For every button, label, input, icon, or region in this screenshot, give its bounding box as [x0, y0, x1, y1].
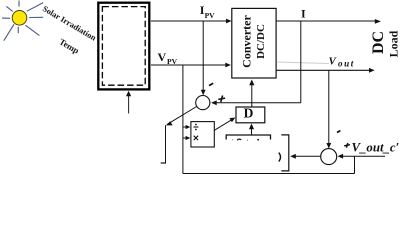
svg-text:PV: PV: [167, 57, 178, 66]
divide block: [191, 122, 214, 147]
divide symbol: [193, 126, 198, 128]
converter U1 DC/DC: [232, 8, 276, 78]
wire S1 plus input: [213, 102, 301, 104]
summer S2: [321, 149, 337, 165]
wire divide input stub 2: [183, 137, 189, 139]
wire divide input stub 1: [183, 126, 189, 128]
wire V_out: [276, 69, 369, 71]
paren glyph: [279, 153, 281, 162]
gain block top edge: [226, 135, 270, 140]
wire divide output to D: [214, 119, 233, 130]
wire V_PV tap down: [182, 65, 184, 174]
ghost line: [277, 62, 329, 64]
wire I tap down to summer S1: [300, 21, 302, 103]
wire down from S1 output: [165, 125, 167, 162]
wire V_out tap down to summer S2: [328, 70, 330, 145]
multiply symbol: [194, 136, 198, 140]
wire D input from below: [251, 129, 253, 135]
PV panel inner dashed frame: [102, 7, 145, 86]
svg-text:D: D: [244, 105, 254, 120]
svg-text:out: out: [338, 59, 355, 69]
label Solar Irradiation: [41, 4, 98, 43]
S2 plus sign: [344, 143, 350, 148]
bracket block: [281, 135, 289, 171]
summer S1: [196, 96, 210, 110]
svg-text:PV: PV: [205, 11, 216, 20]
S2 minus sign: [337, 131, 340, 133]
sun icon: [2, 1, 43, 41]
S1 minus sign: [209, 83, 213, 85]
wire S2 plus input: [342, 155, 386, 157]
wire S2 output to bracket block: [295, 155, 321, 157]
svg-text:V_out_c′: V_out_c′: [352, 140, 400, 154]
svg-text:DC: DC: [370, 31, 387, 54]
wire S1 output diagonal: [168, 107, 197, 125]
svg-text:I: I: [301, 7, 306, 21]
wire V_PV: [151, 64, 229, 66]
S1 plus sign: [218, 96, 225, 103]
wire I_PV: [151, 20, 230, 22]
svg-text:Converter: Converter: [240, 15, 254, 68]
gain text fragments: [237, 139, 241, 140]
svg-text:DC/DC: DC/DC: [255, 24, 267, 59]
wire D output up to converter: [251, 85, 253, 107]
block D: [236, 107, 265, 123]
wire I_PV tap down to summer S1: [202, 21, 204, 92]
svg-text:V: V: [158, 50, 167, 64]
wire I output: [276, 20, 375, 22]
wire foot hook: [161, 162, 166, 164]
label Temp: [58, 36, 81, 55]
PV panel outer frame: [98, 3, 149, 90]
arrow into PV panel bottom: [128, 96, 130, 114]
svg-text:Load: Load: [387, 30, 401, 57]
wire bottom feedback: [183, 173, 355, 175]
